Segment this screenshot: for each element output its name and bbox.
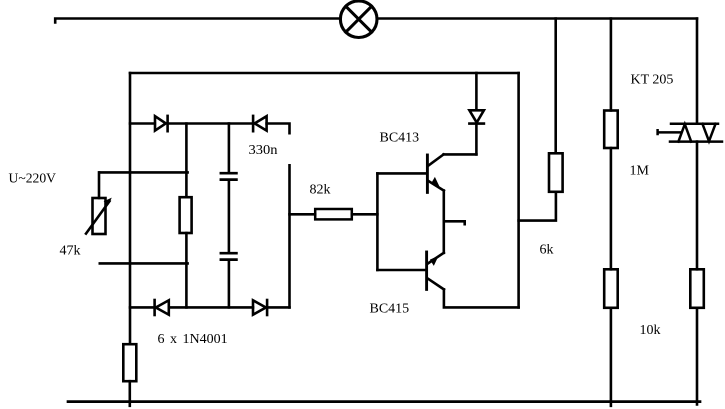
transistor Q1 BC413 (427, 154, 443, 192)
diode D1 (pointing right) (155, 116, 166, 130)
svg-text:KT 205: KT 205 (631, 73, 674, 88)
diode D2 (pointing left) (252, 116, 255, 131)
svg-text:330n: 330n (249, 143, 278, 158)
resistor 10k (604, 269, 618, 308)
wire bottom bridge row start (130, 306, 155, 309)
wire top bridge row start (130, 122, 155, 125)
wire triac bottom to right resistor (696, 142, 699, 270)
lamp La (circle with X) (340, 1, 377, 38)
wire top supply line (right of lamp to top-right corner) (377, 17, 697, 20)
wire top supply line (left of lamp, with start nub) (55, 19, 340, 23)
varistor 47k (box with diagonal arrow) (86, 198, 112, 234)
wire AC input tap lower (100, 262, 188, 265)
wire left trunk below resistor to bottom rail (with nub) (129, 381, 132, 406)
wire 1M bottom to 10k top (610, 148, 613, 269)
wire between D1 and D2 (168, 122, 253, 125)
wire 82k to base splitter (352, 213, 378, 216)
wire bridge output vertical x=289.5 (288, 165, 291, 307)
wire bridge output to 82k (290, 213, 316, 216)
transistor Q2 BC415 (427, 252, 444, 289)
wire output stub (with end tick) (444, 221, 465, 224)
svg-text:BC415: BC415 (370, 302, 410, 317)
wire from top line down at x=611 to 1M (610, 19, 613, 111)
svg-text:10k: 10k (640, 323, 661, 338)
wire inner box right edge (517, 73, 520, 307)
wire right resistor bottom to bottom rail (696, 308, 699, 405)
capacitor C1 (221, 173, 237, 179)
wire 10k bottom to bottom rail (with nub) (610, 308, 613, 406)
wire base splitter vertical (376, 173, 379, 270)
wire between capacitors (228, 180, 231, 252)
wire D4 to bottom-right corner of bridge (267, 306, 289, 309)
wire varistor top lead (98, 172, 101, 198)
wire to BC415 base (377, 269, 426, 272)
svg-text:6 x 1N4001: 6 x 1N4001 (158, 332, 228, 347)
resistor mid-left branch (180, 197, 192, 233)
wire bottom rail (68, 400, 700, 403)
svg-text:U~220V: U~220V (9, 172, 57, 187)
diode D4 (pointing right) (253, 300, 266, 314)
wire bridge mid-left branch upper segment (185, 124, 188, 198)
wire to BC413 base (377, 172, 427, 175)
wire AC input tap upper (100, 171, 188, 174)
resistor 82k (315, 209, 352, 219)
resistor on left trunk near bottom (123, 344, 136, 381)
wire top line corner down at x=697 to triac (696, 19, 699, 124)
wire from top line down at x=555 to 6k resistor (554, 19, 557, 154)
triac KT205 (658, 124, 722, 142)
svg-text:6k: 6k (540, 243, 554, 258)
resistor right (at triac branch) (690, 269, 704, 308)
svg-text:82k: 82k (310, 183, 331, 198)
svg-text:1M: 1M (630, 164, 650, 179)
wire capacitor branch lower segment (228, 260, 231, 307)
wire 6k bottom down and left to inner box right edge (519, 192, 556, 221)
wire left trunk x=130 (top to bottom resistor) (129, 73, 132, 344)
svg-text:BC413: BC413 (380, 131, 420, 146)
wire D2 to top-right corner stub of bridge (267, 124, 290, 134)
wire mid-left branch lower segment (185, 233, 188, 307)
capacitor C2 (221, 253, 237, 259)
diode D5 (pointing down, from top edge) (469, 73, 484, 154)
diode D3 (pointing left) (153, 300, 156, 315)
wire capacitor branch upper segment (228, 124, 231, 173)
wire BC415 lower leg to inner box bottom edge (444, 289, 519, 307)
resistor 6k (549, 153, 563, 192)
wire between D3 and D4 (169, 306, 253, 309)
resistor 1M (604, 111, 618, 149)
svg-text:47k: 47k (60, 244, 81, 259)
wire inner box top edge (130, 72, 519, 75)
wire common emitter vertical (442, 191, 445, 253)
wire BC413 collector to diode (444, 153, 477, 156)
